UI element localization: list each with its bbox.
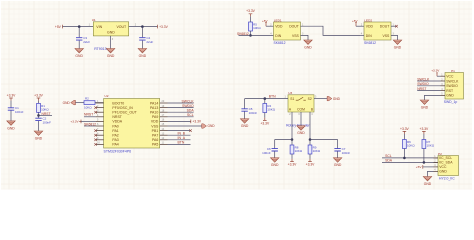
svg-text:+3.3V: +3.3V [288, 163, 298, 167]
wire down to C5 [244, 99, 246, 109]
resistor R8 [290, 145, 294, 154]
wire U3 S2 to GND port [314, 98, 327, 100]
pin 10 PA4 (U2 left) [96, 143, 104, 145]
resistor R7 [422, 140, 426, 149]
wire P2 GND down [428, 171, 434, 176]
svg-text:22uF: 22uF [146, 40, 153, 44]
svg-text:SK6812: SK6812 [364, 41, 376, 45]
wire +3.3V to R7 [423, 134, 425, 140]
pin 8 PA2 (U2 left) [96, 134, 104, 136]
wire R6 to SCL [403, 149, 405, 158]
svg-text:PA3: PA3 [112, 138, 118, 142]
svg-text:PA7: PA7 [152, 134, 158, 138]
wire A to C6 [275, 139, 292, 141]
junction R5/DIN1 [249, 34, 252, 37]
wire +3.3V to P1 VCC [437, 75, 441, 77]
resistor R9 [308, 145, 312, 154]
svg-text:PA10: PA10 [150, 111, 158, 115]
wire B to R9 [309, 140, 311, 146]
LED U LED2 body [364, 22, 391, 40]
wire NRST stub [39, 114, 53, 116]
power flag +3.3V (C1) [9, 98, 13, 101]
wire to C4 top [141, 27, 143, 38]
pin 5 GND (P1) [441, 94, 446, 96]
pin 20 PA14 (U2 right) [160, 102, 168, 104]
svg-text:PA5: PA5 [152, 143, 158, 147]
wire R2 to U2 BOOT0 [95, 102, 104, 104]
ground (P2) [423, 177, 431, 181]
svg-text:VSS: VSS [292, 34, 300, 38]
wire U2 PA5 BTN [168, 143, 191, 145]
svg-text:+3.3V: +3.3V [420, 127, 430, 131]
capacitor C4 [139, 38, 145, 40]
wire R4 to +3.3V flag [264, 113, 266, 118]
svg-text:VDDA: VDDA [112, 120, 122, 124]
resistor R2 [84, 101, 95, 105]
rotary encoder U3 body [288, 95, 314, 112]
pin 11 PA5 (U2 right) [160, 143, 168, 145]
svg-text:U2: U2 [105, 94, 109, 98]
pin 6 PA0 (U2 left) [96, 125, 104, 127]
wire +5V to U1 VIN [63, 26, 94, 28]
wire SK6812 to U2 PA0 [84, 125, 96, 127]
svg-text:PA0: PA0 [112, 124, 118, 128]
svg-text:BTN: BTN [269, 95, 276, 99]
wire NRST to P1 [417, 90, 440, 92]
svg-text:GND: GND [424, 182, 432, 186]
junction R4/BTN [264, 97, 267, 100]
svg-text:PA14: PA14 [150, 101, 158, 105]
wire R8 to +3.3V flag [291, 154, 293, 159]
wire U1 GND pin down [110, 36, 112, 49]
pin 19 PA13 (U2 right) [160, 107, 168, 109]
svg-text:PA9: PA9 [152, 115, 158, 119]
ground (U1) [106, 49, 114, 53]
svg-text:PF1/OSC_OUT: PF1/OSC_OUT [112, 111, 137, 115]
svg-text:VIN: VIN [96, 25, 102, 29]
pin 15 VSS (U2 right) [160, 125, 168, 127]
power flag +3.3V (R4, below) [263, 118, 267, 121]
pin 2 PF0/OSC_IN (U2 left) [96, 107, 104, 109]
MCU U2 body [104, 99, 160, 149]
pin 5 VDDA (U2 left) [96, 120, 104, 122]
svg-text:VCC: VCC [446, 75, 454, 79]
svg-text:22uF: 22uF [83, 40, 90, 44]
wire LED1 DOUT to LED2 DIN [301, 26, 361, 35]
capacitor C7 [334, 149, 340, 151]
svg-text:PA4: PA4 [112, 143, 118, 147]
svg-text:VOUT: VOUT [116, 25, 127, 29]
svg-text:SWCLK: SWCLK [446, 79, 459, 83]
pin 3 VCC (P2) [434, 166, 439, 168]
unconnected pin marker (U2 PA4) [94, 143, 97, 146]
pin 13 PA7 (U2 right) [160, 134, 168, 136]
junction NRST node [37, 114, 40, 117]
svg-text:S2: S2 [308, 97, 312, 101]
wire to C3 top [78, 27, 80, 38]
unconnected pin marker (U2 PA2) [94, 134, 97, 137]
svg-text:VDD: VDD [275, 25, 283, 29]
svg-text:10KΩ: 10KΩ [84, 106, 92, 110]
svg-text:PA1: PA1 [112, 129, 118, 133]
wire SWDIO to P1 [417, 85, 440, 87]
unconnected pin marker (LED2 DOUT) [395, 25, 398, 28]
pin 2 IIC_SDA (P2) [434, 161, 439, 163]
svg-text:BOOT0: BOOT0 [112, 101, 124, 105]
svg-text:GND: GND [333, 97, 341, 101]
wire U2 VDD to +3.3V [168, 120, 191, 122]
svg-text:RST: RST [446, 89, 453, 93]
svg-text:10KΩ: 10KΩ [253, 26, 261, 30]
wire +3.3V to R1 [38, 101, 40, 104]
svg-text:GND: GND [446, 94, 454, 98]
svg-text:+3.3V: +3.3V [246, 9, 256, 13]
svg-text:U1: U1 [92, 18, 96, 22]
svg-text:100nF: 100nF [249, 111, 258, 115]
resistor R4 [263, 104, 267, 113]
pin 3 PF1/OSC_OUT (U2 left) [96, 111, 104, 113]
svg-text:SK6812: SK6812 [274, 41, 286, 45]
svg-text:+5V: +5V [416, 165, 423, 169]
svg-text:P1: P1 [451, 69, 455, 73]
pin 9 PA3 (U2 left) [96, 139, 104, 141]
svg-text:VDD: VDD [151, 120, 159, 124]
power flag +3.3V (U2 VDDA) [79, 120, 81, 124]
ground (C6) [271, 158, 279, 162]
svg-text:PA2: PA2 [112, 134, 118, 138]
ground (P1) [420, 100, 428, 104]
capacitor C5 [241, 109, 247, 111]
ground (C4) [138, 49, 146, 53]
ground net port (U2 VSS) [202, 124, 207, 128]
svg-text:VSS: VSS [383, 34, 391, 38]
wire U2 PA10 SDA [168, 111, 194, 113]
junction B node [309, 138, 312, 141]
wire B to C7 [310, 139, 338, 141]
power flag +5V (LED1 VDD) [265, 23, 267, 27]
power flag +3.3V (R8, below) [290, 159, 294, 162]
svg-text:GND: GND [35, 136, 43, 140]
capacitor C1 [8, 108, 14, 110]
power flag +3.3V (R6) [403, 131, 407, 134]
svg-text:NRST: NRST [84, 113, 93, 117]
power flag +3.3V (R7) [422, 131, 426, 134]
unconnected pin marker (U2 PA3) [94, 139, 97, 142]
wire +3.3V to U2 VDDA [81, 120, 96, 122]
svg-text:+3.3V: +3.3V [34, 93, 44, 97]
wire NRST to U2 [84, 116, 96, 118]
svg-text:100nF: 100nF [262, 151, 271, 155]
connector P2 body [438, 156, 459, 176]
wire down to C6 [274, 140, 276, 149]
wire U2 PA14 SWCLK [168, 102, 194, 104]
wire junction to R4 [264, 99, 266, 104]
ground (C1) [7, 121, 15, 125]
resistor R5 [249, 22, 253, 31]
svg-text:STM32F030F4P6: STM32F030F4P6 [104, 149, 132, 153]
svg-text:DOUT: DOUT [289, 25, 299, 29]
power flag +3.3V (P1 VCC) [436, 73, 438, 76]
power flag +3.3V (U2 VDD) [190, 120, 192, 124]
wire C3 to GND [78, 41, 80, 49]
wire SDA to P2 [382, 161, 438, 163]
wire A to R8 [291, 140, 293, 146]
svg-text:DIN: DIN [275, 34, 281, 38]
wire +3.3V to R6 [403, 134, 405, 140]
junction R7/SDA [423, 161, 426, 164]
power flag +5V (LED2 VDD) [355, 23, 357, 27]
svg-text:DIN: DIN [366, 34, 372, 38]
svg-text:+5V: +5V [55, 25, 62, 29]
svg-text:10KΩ: 10KΩ [295, 149, 303, 153]
wire SCL to P2 [382, 157, 438, 159]
svg-text:VSS: VSS [151, 124, 159, 128]
svg-text:NRST: NRST [112, 115, 122, 119]
power flag +3.3V (regulator output) [157, 25, 159, 29]
svg-text:100nF: 100nF [15, 110, 24, 114]
svg-text:DOUT: DOUT [380, 25, 390, 29]
wire R9 to +3.3V flag [309, 154, 311, 159]
svg-text:+5V: +5V [352, 19, 359, 23]
wire GND port to R2 [76, 102, 85, 104]
svg-text:+3.3V: +3.3V [7, 93, 17, 97]
regulator U1 body [93, 22, 128, 36]
wire +5V to P2 VCC [423, 166, 434, 168]
svg-text:GND: GND [241, 124, 249, 128]
wire C4 to GND [141, 41, 143, 49]
pin 14 PB1 (U2 right) [160, 130, 168, 132]
wire U3 A down [291, 112, 293, 140]
svg-text:GND: GND [208, 124, 216, 128]
resistor R6 [403, 140, 407, 149]
svg-text:PA6: PA6 [152, 138, 158, 142]
pin 2 SWCLK (P1) [441, 80, 446, 82]
svg-text:+3.3V: +3.3V [159, 25, 169, 29]
wire U1 VOUT to +3.3V [129, 26, 158, 28]
svg-text:PA13: PA13 [150, 106, 158, 110]
pin 1 IIC_SCL (P2) [434, 157, 439, 159]
svg-text:R2: R2 [85, 97, 89, 101]
resistor R1 [37, 103, 41, 112]
wire +3.3V to R5 [250, 16, 252, 22]
wire U3 B down [309, 112, 311, 140]
svg-text:SWDIO: SWDIO [446, 84, 458, 88]
wire LED2 DIN stub [360, 34, 364, 36]
capacitor C6 [272, 149, 278, 151]
pin 16 VDD (U2 right) [160, 120, 168, 122]
unconnected pin marker (U2 PF0/OSC_IN) [94, 106, 97, 109]
svg-text:+3.3V: +3.3V [431, 69, 440, 73]
wire C1 to ground [10, 111, 12, 121]
svg-text:SWD_1p: SWD_1p [444, 100, 458, 104]
LED U LED1 body [274, 22, 301, 40]
svg-text:VCC: VCC [439, 165, 447, 169]
power flag +3.3V (R1) [37, 98, 41, 101]
svg-text:GND: GND [421, 105, 429, 109]
svg-text:GND: GND [107, 31, 115, 35]
junction A node [291, 138, 294, 141]
pin 1 BOOT0 (U2 left) [96, 102, 104, 104]
svg-text:RT9013: RT9013 [94, 47, 106, 51]
svg-text:COM: COM [297, 107, 305, 111]
svg-text:10KΩ: 10KΩ [427, 144, 435, 148]
svg-text:+3.3V: +3.3V [400, 127, 410, 131]
wire U2 PA6 IN_A [168, 139, 191, 141]
svg-text:VDD: VDD [366, 25, 374, 29]
pin 4 NRST (U2 left) [96, 116, 104, 118]
ground net port (U3 S2) [327, 96, 332, 100]
svg-text:GND: GND [394, 45, 402, 49]
pin 3 SWDIO (P1) [441, 85, 446, 87]
svg-text:GND: GND [75, 54, 83, 58]
pin 12 PA6 (U2 right) [160, 139, 168, 141]
wire R7 to SDA [423, 149, 425, 163]
wire U2 PA13 SWDIO [168, 107, 194, 109]
junction C4/VOUT [141, 25, 144, 28]
wire down to C7 [337, 140, 339, 149]
unconnected wire end marker (PB1) [189, 129, 192, 132]
wire C6 to ground [274, 151, 276, 158]
svg-text:GND: GND [439, 170, 447, 174]
svg-text:GND: GND [63, 101, 71, 105]
svg-text:LED2: LED2 [364, 18, 372, 22]
pin 1 VCC (P1) [441, 75, 446, 77]
capacitor C3 [76, 38, 82, 40]
svg-text:GND: GND [271, 163, 279, 167]
pin 4 GND (P2) [434, 170, 439, 172]
wire U2 PA9 SCL [168, 116, 194, 118]
wire +5V flag to LED2 VDD [356, 25, 364, 27]
power flag +5V (P2 VCC) [422, 165, 424, 169]
wire LED2 DOUT stub [391, 25, 397, 27]
ground (C7) [333, 158, 341, 162]
wire U3 COM down [300, 112, 302, 126]
capacitor C2 [35, 118, 41, 120]
switch glyph inside U3 [296, 97, 306, 100]
svg-text:10KΩ: 10KΩ [267, 108, 275, 112]
wire LED1 VSS to ground [301, 35, 309, 40]
wire SWCLK to P1 [417, 80, 440, 82]
svg-text:GND: GND [304, 45, 312, 49]
wire P1 GND down [425, 95, 441, 100]
wire SK6812 net to LED1 DIN [239, 34, 274, 36]
svg-text:GND: GND [139, 54, 147, 58]
svg-text:+5V: +5V [262, 19, 269, 23]
wire U2 VSS to GND port [168, 125, 202, 127]
wire U2 PB1 [168, 130, 191, 132]
pin 4 RST (P1) [441, 90, 446, 92]
wire LED2 VSS to ground [391, 35, 398, 40]
ground (LED1 VSS) [304, 40, 312, 44]
svg-text:+3.3V: +3.3V [70, 120, 79, 124]
svg-text:10KΩ: 10KΩ [407, 144, 415, 148]
wire +5V flag to LED1 VDD [266, 25, 274, 27]
svg-text:+3.3V: +3.3V [306, 163, 316, 167]
svg-text:100nF: 100nF [43, 120, 52, 124]
wire C2 to ground [38, 121, 40, 131]
svg-text:+3.3V: +3.3V [192, 120, 202, 124]
svg-text:GND: GND [107, 54, 115, 58]
wire C5 to ground [244, 112, 246, 119]
ground (U3 COM) [297, 126, 305, 130]
svg-text:IIC_SCL: IIC_SCL [439, 156, 452, 160]
ground (LED2 VSS) [393, 40, 401, 44]
svg-text:U3: U3 [288, 91, 292, 95]
unconnected pin marker (U2 PF1/OSC_OUT) [94, 111, 97, 114]
wire BTN to U3 S1 [245, 98, 288, 100]
wire R5 to DIN net [250, 31, 252, 35]
pin 7 PA1 (U2 left) [96, 130, 104, 132]
svg-text:S1: S1 [290, 97, 294, 101]
svg-text:GND: GND [334, 163, 342, 167]
svg-text:GND: GND [297, 131, 305, 135]
ground (C3) [75, 49, 83, 53]
power flag +5V (regulator input) [62, 25, 64, 29]
pin 18 PA10 (U2 right) [160, 111, 168, 113]
svg-text:PF0/OSC_IN: PF0/OSC_IN [112, 106, 133, 110]
power flag +3.3V (R9, below) [308, 159, 312, 162]
ground (C2) [34, 131, 42, 135]
wire R1 to C2 [38, 112, 40, 118]
wire U2 PA7 IN_B [168, 134, 191, 136]
svg-text:HY2.0_IIC: HY2.0_IIC [439, 177, 455, 181]
power flag +3.3V (R5 pull-up) [249, 14, 253, 17]
junction R6/SCL [403, 157, 406, 160]
ground net port (BOOT0) [71, 100, 76, 104]
ground (C5) [240, 119, 248, 123]
svg-text:PB1: PB1 [152, 129, 159, 133]
svg-text:10KΩ: 10KΩ [313, 149, 321, 153]
svg-text:GND: GND [7, 126, 15, 130]
junction C3/+5V [78, 25, 81, 28]
wire +3.3V to C1 [10, 101, 12, 108]
svg-text:LED1: LED1 [274, 18, 282, 22]
unconnected pin marker (U2 PA1) [94, 129, 97, 132]
wire C7 to ground [337, 151, 339, 158]
connector P1 body [445, 73, 464, 100]
svg-text:IIC_SDA: IIC_SDA [439, 161, 453, 165]
svg-text:100nF: 100nF [342, 151, 351, 155]
pin 17 PA9 (U2 right) [160, 116, 168, 118]
svg-text:+3.3V: +3.3V [260, 121, 270, 125]
